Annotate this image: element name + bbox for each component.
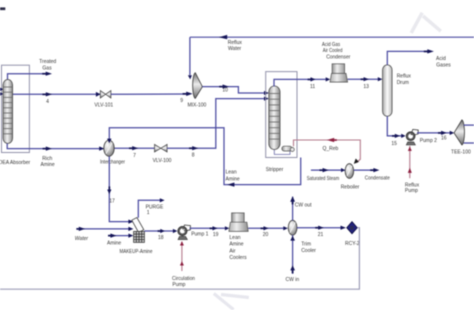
svg-text:Reflux: Reflux bbox=[397, 73, 412, 79]
wire treated gas bbox=[8, 74, 47, 81]
wire stream 18 bbox=[144, 230, 173, 232]
arrow amine bbox=[110, 234, 116, 238]
arrow into interchanger bbox=[99, 146, 104, 150]
svg-text:Gas: Gas bbox=[42, 65, 52, 71]
label Treated Gas bbox=[39, 59, 56, 71]
arrow stream 8 bbox=[192, 146, 198, 150]
svg-text:4: 4 bbox=[46, 99, 49, 105]
condenser acid gas air cooled bbox=[330, 64, 348, 82]
svg-text:Stripper: Stripper bbox=[266, 167, 284, 173]
label Acid Gas Air Cooled Condenser bbox=[322, 42, 351, 61]
svg-text:Reboiler: Reboiler bbox=[341, 185, 360, 191]
svg-text:Pump: Pump bbox=[172, 282, 185, 288]
svg-text:MIX-100: MIX-100 bbox=[187, 103, 206, 109]
arrow lean amine into interchanger bbox=[107, 139, 111, 144]
svg-text:CW in: CW in bbox=[286, 277, 300, 283]
svg-text:Drum: Drum bbox=[397, 80, 409, 86]
wire purge bbox=[138, 200, 160, 218]
wire stream 15 bbox=[387, 116, 401, 136]
svg-text:7: 7 bbox=[133, 153, 136, 159]
arrow into TEE-100 bbox=[450, 131, 455, 135]
watermark top-right bbox=[411, 13, 441, 33]
svg-text:Lean: Lean bbox=[229, 235, 240, 241]
svg-text:Water: Water bbox=[75, 236, 89, 242]
wire reflux water top line bbox=[190, 36, 474, 38]
energy stream Q_Reb bbox=[294, 140, 361, 163]
pump P-1 bbox=[178, 225, 191, 240]
svg-text:19: 19 bbox=[213, 232, 219, 238]
svg-text:Interchanger: Interchanger bbox=[100, 160, 125, 166]
wire tee out top bbox=[464, 124, 474, 126]
tee TEE-100 bbox=[454, 120, 464, 145]
svg-text:Condensate: Condensate bbox=[365, 176, 390, 182]
arrow stream 9 into mixer bbox=[186, 92, 192, 96]
arrow stream 17 into makeup bbox=[128, 220, 133, 224]
arrow condensate bbox=[373, 168, 379, 172]
svg-text:Amine: Amine bbox=[229, 242, 243, 248]
wire stream 11 bbox=[274, 79, 327, 86]
watermark bottom bbox=[214, 294, 249, 310]
arrow into trim cooler bbox=[283, 226, 288, 230]
svg-text:Acid Gas: Acid Gas bbox=[322, 42, 341, 48]
svg-text:Air: Air bbox=[229, 248, 235, 254]
wire stream 8 bbox=[167, 99, 264, 149]
svg-text:Cooler: Cooler bbox=[301, 248, 316, 254]
wire stream 9 bbox=[111, 93, 187, 96]
arrow into condenser bbox=[326, 77, 331, 81]
svg-text:10: 10 bbox=[222, 87, 228, 93]
arrow into reflux drum bbox=[378, 77, 383, 81]
feed stub B bbox=[0, 92, 3, 95]
arrow stream 16 bbox=[441, 131, 447, 135]
arrow into pump 1 bbox=[173, 229, 178, 233]
svg-text:RCY-2: RCY-2 bbox=[345, 241, 360, 247]
wire stream 4 bbox=[13, 93, 101, 95]
svg-text:Reflux: Reflux bbox=[228, 40, 243, 46]
svg-text:1: 1 bbox=[147, 210, 150, 216]
arrow CW out bbox=[290, 196, 295, 202]
label Reflux Water bbox=[228, 40, 243, 52]
label Rich Amine bbox=[41, 156, 55, 168]
svg-text:Condenser: Condenser bbox=[326, 55, 351, 61]
trim cooler bbox=[288, 220, 297, 235]
reflux drum V-100 bbox=[383, 65, 393, 116]
svg-text:Pump 1: Pump 1 bbox=[191, 232, 208, 238]
wire stream 19 bbox=[190, 227, 226, 229]
svg-text:18: 18 bbox=[158, 235, 164, 241]
wire tee out bottom bbox=[464, 142, 474, 144]
stripper boundary rectangle bbox=[266, 72, 297, 158]
svg-text:VLV-100: VLV-100 bbox=[153, 158, 172, 164]
arrow stream 8 into stripper bbox=[264, 97, 269, 101]
column stripper bbox=[269, 86, 280, 150]
svg-text:Air Cooled: Air Cooled bbox=[323, 48, 343, 54]
arrow stream 20 bbox=[264, 226, 269, 230]
svg-text:VLV-101: VLV-101 bbox=[94, 102, 113, 108]
wire water feed bbox=[76, 228, 128, 230]
arrow amine into makeup bbox=[128, 234, 133, 238]
recycle RCY-2 bbox=[347, 222, 358, 234]
svg-text:Amine: Amine bbox=[226, 176, 240, 182]
wire amine feed bbox=[108, 235, 129, 237]
svg-text:Trim: Trim bbox=[301, 242, 311, 248]
column absorber bbox=[3, 80, 13, 144]
arrow Q_Reb into reboiler bbox=[354, 159, 359, 164]
makeup tank MAKEUP-Amine bbox=[132, 218, 145, 243]
wire stream 21 bbox=[297, 227, 341, 229]
wire rich amine bbox=[7, 144, 104, 149]
reboiler exchanger bbox=[345, 164, 354, 179]
wire stream 13 bbox=[348, 78, 379, 80]
arrow Q_Reb (left) bbox=[327, 138, 334, 142]
wire recycle out bbox=[0, 228, 359, 290]
arrow into pump 2 bbox=[401, 134, 405, 138]
svg-text:DEA Absorber: DEA Absorber bbox=[0, 160, 31, 166]
wire CW in bbox=[292, 235, 294, 274]
arrow stream 21 bbox=[318, 226, 324, 230]
arrow into air cooler bbox=[225, 226, 229, 230]
arrow into VLV-101 bbox=[96, 92, 101, 97]
arrow stream 4 bbox=[46, 92, 52, 96]
feed stub A bbox=[0, 88, 3, 91]
arrow water bbox=[79, 227, 85, 231]
svg-text:Lean: Lean bbox=[226, 170, 237, 176]
svg-text:13: 13 bbox=[363, 84, 369, 90]
svg-text:15: 15 bbox=[391, 141, 397, 147]
arrow stream 10 bbox=[223, 85, 229, 89]
absorber boundary rectangle bbox=[2, 65, 30, 152]
arrow stream 19 bbox=[213, 226, 218, 230]
valve VLV-100 bbox=[155, 144, 168, 152]
valve VLV-101 bbox=[100, 91, 111, 99]
arrow lean amine (left) bbox=[227, 183, 234, 187]
wire stream 16 bbox=[417, 132, 450, 134]
svg-text:Acid: Acid bbox=[436, 56, 446, 62]
arrow stream 15 bbox=[395, 134, 400, 138]
stripper internal reboiler drum bbox=[282, 146, 294, 151]
arrow saturated steam bbox=[323, 168, 329, 172]
toolbar fragment top-left bbox=[0, 7, 5, 10]
svg-text:Coolers: Coolers bbox=[229, 255, 247, 261]
arrow acid gases bbox=[427, 49, 434, 53]
wire CW out bbox=[292, 197, 294, 221]
arrow reflux water (left) bbox=[219, 35, 227, 39]
svg-text:R: R bbox=[350, 226, 354, 232]
arrow stream 10 into stripper bbox=[264, 91, 269, 95]
wire stream 17 bbox=[109, 156, 128, 221]
arrow water into makeup bbox=[128, 227, 133, 231]
arrow treated gas bbox=[46, 72, 52, 76]
svg-text:Water: Water bbox=[228, 46, 241, 52]
svg-text:MAKEUP-Amine: MAKEUP-Amine bbox=[120, 249, 153, 255]
svg-text:Pump 2: Pump 2 bbox=[420, 138, 437, 144]
energy stream reflux pump bbox=[409, 146, 411, 178]
svg-text:Saturated Steam: Saturated Steam bbox=[307, 176, 340, 182]
svg-text:Amine: Amine bbox=[41, 162, 55, 168]
air cooler lean amine bbox=[229, 213, 248, 232]
arrow into reboiler bbox=[341, 168, 345, 172]
arrow stream 17 down bbox=[107, 190, 111, 195]
arrow stream 11 bbox=[311, 77, 316, 81]
mixer MIX-100 bbox=[193, 73, 203, 99]
arrow rich amine bbox=[46, 147, 52, 151]
svg-text:8: 8 bbox=[192, 153, 195, 159]
arrow stream 7 bbox=[132, 146, 138, 150]
arrow stream 13 bbox=[364, 77, 369, 81]
svg-text:Treated: Treated bbox=[39, 59, 56, 65]
wire saturated steam bbox=[311, 169, 345, 171]
wire stream 7 bbox=[114, 147, 154, 149]
wire condensate bbox=[354, 169, 374, 171]
svg-text:TEE-100: TEE-100 bbox=[451, 150, 471, 156]
svg-text:9: 9 bbox=[180, 98, 183, 104]
svg-text:Pump: Pump bbox=[405, 188, 418, 194]
svg-text:16: 16 bbox=[441, 136, 447, 142]
arrow CW in bbox=[290, 265, 295, 270]
arrow into mixer top bbox=[188, 75, 192, 79]
svg-text:11: 11 bbox=[310, 84, 315, 90]
arrow purge bbox=[160, 198, 165, 202]
energy stream circulation pump bbox=[181, 242, 183, 272]
svg-text:Rich: Rich bbox=[42, 156, 52, 162]
pump P-2 bbox=[406, 129, 418, 145]
wire lean amine return bbox=[109, 128, 300, 185]
svg-text:20: 20 bbox=[263, 232, 269, 238]
wire stream 10 bbox=[202, 87, 264, 93]
svg-text:21: 21 bbox=[318, 232, 324, 238]
svg-text:17: 17 bbox=[109, 199, 115, 205]
interchanger E-100 bbox=[104, 140, 114, 156]
arrow CW in into cooler bbox=[290, 236, 295, 241]
wire acid gases bbox=[387, 51, 427, 65]
stripper internal pipe bbox=[274, 149, 290, 154]
arrow into RCY-2 bbox=[341, 226, 347, 230]
svg-text:Gases: Gases bbox=[436, 63, 451, 69]
svg-text:Amine: Amine bbox=[107, 240, 121, 246]
wire reflux water drop to mixer bbox=[189, 37, 191, 75]
svg-text:Q_Reb: Q_Reb bbox=[322, 146, 338, 152]
wire stream 20 bbox=[248, 227, 284, 229]
arrow stream 18 bbox=[160, 229, 165, 233]
svg-text:CW out: CW out bbox=[295, 202, 312, 208]
